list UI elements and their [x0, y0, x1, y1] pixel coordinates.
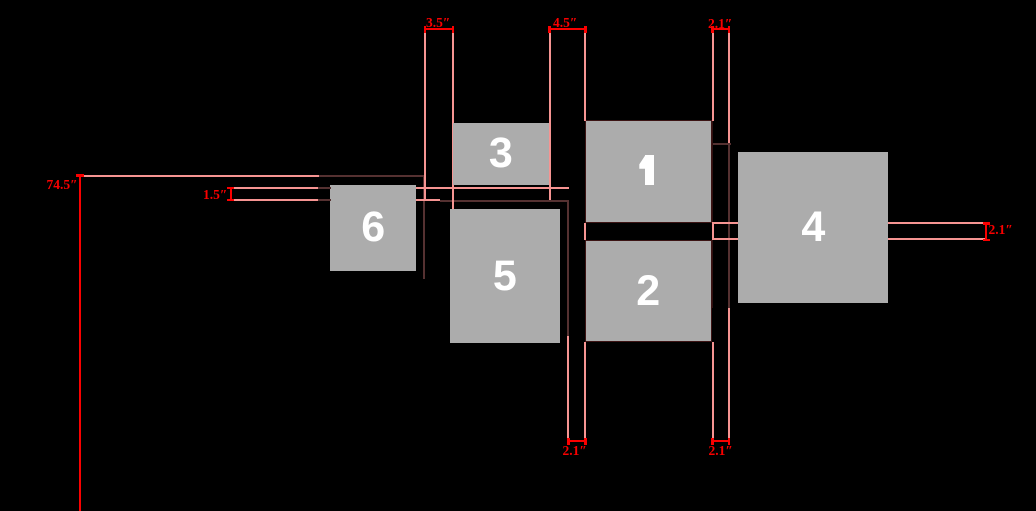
dimension 2.1in top tick right	[728, 26, 731, 33]
wall D1 horizontal y=175	[318, 175, 426, 177]
extension line y=199.5 (under box 6)	[231, 199, 440, 201]
dimension 2.1in bottom-left label	[563, 445, 587, 456]
extension line y=175 from datum	[81, 175, 319, 177]
box 1	[585, 120, 712, 223]
dimension 74.5in tick	[76, 174, 84, 177]
extension line x=424.5 (3.5in left)	[424, 32, 426, 200]
dimension 2.1in top line	[712, 28, 730, 30]
dimension 1.5in tick bottom	[227, 199, 234, 201]
wall D1 vertical x=424	[423, 175, 425, 279]
extension line x=585 segment above box 1	[584, 32, 586, 121]
dimension 4.5in tick left	[548, 26, 551, 33]
extension line x=728.7 segment above wall	[728, 32, 730, 143]
wall D2 horizontal y=200	[440, 200, 569, 202]
dimension 74.5in line	[79, 175, 81, 511]
wall stub y=187.5 left of box 6	[318, 187, 331, 189]
wall stub y=199 left of box 6	[318, 199, 331, 201]
dimension 2.1in bottom-left tick left	[567, 438, 570, 445]
extension line x=568 bottom	[567, 336, 569, 441]
dimension 1.5in bracket	[230, 187, 232, 201]
dimension 2.1in top tick left	[711, 26, 714, 33]
box 3	[453, 123, 549, 186]
box 4	[738, 152, 888, 303]
extension line x=585 segment below box 2	[584, 342, 586, 441]
dimension 2.1in bottom-right label	[709, 445, 733, 456]
dimension 1.5in tick top	[227, 187, 234, 189]
extension line x=712.3 segment below box 2	[712, 342, 714, 441]
dimension 2.1in top label	[708, 18, 732, 29]
wall D3 horizontal stub y=143	[712, 143, 731, 145]
box 1 digit flag	[639, 155, 645, 168]
extension line x=549 (under box 3)	[549, 32, 551, 200]
dimension 3.5in label	[426, 17, 450, 28]
extension line y=222 (to right tick)	[712, 222, 985, 224]
dimension 2.1in bottom-left line	[568, 440, 586, 442]
box 2	[585, 240, 712, 343]
box 5	[450, 209, 560, 343]
box 6	[330, 185, 416, 271]
dimension 3.5in tick right	[452, 26, 455, 33]
extension line y=187.5 (under box 6)	[231, 187, 569, 189]
dimension 1.5in label	[203, 189, 227, 200]
dimension 74.5in label	[47, 179, 78, 190]
extension line y=238.5 (to right tick)	[712, 238, 985, 240]
dimension 4.5in tick right	[584, 26, 587, 33]
extension line x=712.3 segment between boxes 1 and 2	[712, 222, 714, 240]
wall D3 left vertical x=712.4	[712, 121, 713, 308]
dimension 3.5in line	[424, 28, 454, 30]
extension line x=728.7 segment below wall	[728, 308, 730, 441]
wall D2 vertical x=567	[567, 200, 569, 336]
dimension 2.1in right tick top	[983, 222, 990, 224]
dimension 2.1in right line	[985, 222, 987, 241]
extension line x=712.3 segment above box 1	[712, 32, 714, 121]
dimension 2.1in bottom-right line	[712, 440, 730, 442]
dimension 2.1in bottom-right tick right	[728, 438, 731, 445]
dimension 4.5in label	[553, 17, 577, 28]
dimension 2.1in right tick bottom	[983, 239, 990, 241]
dimension 2.1in right label	[989, 224, 1013, 235]
dimension 3.5in tick left	[424, 26, 427, 33]
dimension 4.5in line	[549, 28, 587, 30]
dimension 2.1in bottom-left tick right	[584, 438, 587, 445]
wall D3 right vertical x=729.5	[728, 143, 730, 309]
extension line x=452.5 (under boxes 3,5)	[452, 32, 454, 210]
box 1 digit stem	[645, 155, 653, 185]
dimension 2.1in bottom-right tick left	[711, 438, 714, 445]
extension line x=585 segment between boxes 1 and 2	[584, 223, 586, 240]
